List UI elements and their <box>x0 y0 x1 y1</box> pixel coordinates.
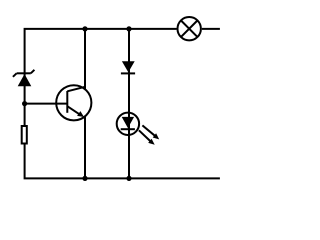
zener diode D1 <box>13 70 35 86</box>
node: junction top diode branch <box>126 26 131 31</box>
LED D3 <box>117 113 159 145</box>
wire: top rail + left rail + bottom rail <box>25 29 220 179</box>
transistor Q1 <box>56 85 91 120</box>
wire: diode/LED branch <box>128 29 130 179</box>
diode D2 <box>121 61 135 73</box>
lamp E1 <box>178 17 201 40</box>
node: junction top collector branch <box>82 26 87 31</box>
wire: emitter branch (transistor to bottom rail) <box>84 117 86 179</box>
resistor R1 <box>22 126 27 144</box>
wire: lamp right lead <box>202 28 220 30</box>
node: junction base/left rail <box>22 101 27 106</box>
wire: collector branch (top rail to transistor) <box>84 29 86 90</box>
node: junction bottom LED branch <box>126 176 131 181</box>
node: junction bottom emitter branch <box>82 176 87 181</box>
wire: base wire <box>25 103 68 105</box>
